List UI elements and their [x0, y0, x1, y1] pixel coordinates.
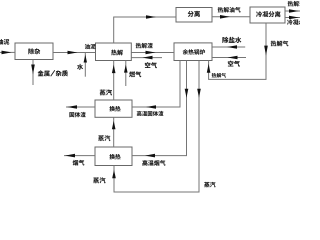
label zhengqi (steam) bottom right	[204, 182, 215, 188]
label ranqi (fuel gas)	[129, 71, 141, 77]
wire shui (water) input	[84, 53, 87, 77]
wire fenli to lengning-fenli	[212, 15, 250, 19]
label zhengqi (steam) bottom left	[93, 177, 105, 183]
box fenli (separation)	[176, 8, 212, 23]
wire steam: huanre2 up into huanre1	[112, 117, 116, 147]
label gutizha (solid residue)	[69, 112, 85, 117]
label jinshu/zazhi (metal/impurities)	[38, 70, 68, 76]
wire chuza to rejie	[53, 51, 96, 55]
wire youni input into chuza	[0, 51, 15, 55]
wire condensate water output right	[285, 16, 300, 20]
box yure-guolu (waste heat boiler)	[174, 43, 212, 61]
wire kongqi (air) into rejie	[131, 56, 162, 60]
wire steam loop: boiler down, left, up into huanre2	[112, 61, 201, 193]
wire steam: huanre1 up into rejie	[112, 61, 116, 101]
wire rejieqi recycle: down, left, up into boiler	[207, 23, 268, 79]
label kongqi (air) at rejie	[145, 62, 157, 68]
wire rejie to fenli (pyrolysis oil gas riser)	[114, 15, 176, 43]
wire pyrolysis oil output right	[285, 9, 300, 13]
wire yanqi (flue gas) output left	[64, 154, 95, 158]
label kongqi (air) at boiler	[228, 61, 240, 67]
label chuyanshui (demineralized water)	[222, 37, 241, 43]
box rejie (pyrolysis)	[96, 43, 132, 61]
label zhengqi (steam) upper	[100, 89, 112, 95]
wire chuyanshui (demin water) into boiler	[212, 45, 245, 49]
label youni (oil sludge) mid	[85, 44, 96, 49]
wire rejiezha: rejie to boiler	[131, 51, 174, 55]
label gaowen-gutizha (hot solid residue)	[137, 111, 164, 116]
label rejiezha (pyrolysis residue)	[136, 43, 153, 49]
label rejieyou (pyrolysis oil)	[288, 1, 305, 7]
box chuza (impurity removal)	[15, 43, 53, 60]
label rejieyouqi (pyrolysis oil gas)	[218, 7, 241, 13]
label gaowen-yanqi (hot flue gas)	[142, 160, 165, 166]
label zhengqi (steam) mid	[98, 135, 110, 141]
label yanqi (flue gas)	[73, 160, 85, 166]
wire ranqi (fuel gas) into rejie	[124, 61, 128, 87]
box huanre2 (heat exchanger 2)	[95, 147, 132, 166]
wire hot flue gas: boiler down-left into huanre2	[132, 61, 188, 158]
wire kongqi (air) into boiler	[212, 56, 246, 60]
wire hot solid residue: boiler down-left into huanre1	[132, 61, 180, 109]
label lengningshui (condensate water)	[287, 19, 304, 25]
label rejieqi (pyrolysis gas) right	[271, 41, 289, 47]
label shui (water)	[77, 64, 83, 70]
wire metal/impurity output down	[31, 60, 35, 86]
label rejieqi (pyrolysis gas) at boiler	[212, 73, 226, 78]
label youni (oil sludge) left	[0, 39, 9, 45]
box huanre1 (heat exchanger 1)	[95, 100, 132, 117]
box lengning-fenli (condensation separation)	[250, 7, 285, 23]
wire gutizha (solid residue) output left	[66, 105, 95, 109]
